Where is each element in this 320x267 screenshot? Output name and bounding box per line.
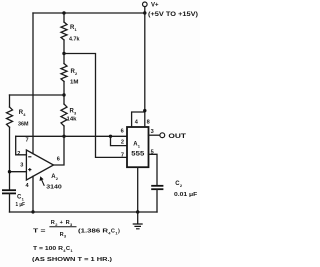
- wire 555 pins 4,8 bracket to V+: [132, 112, 150, 127]
- svg-text:C: C: [111, 229, 115, 235]
- svg-text:T =: T =: [33, 229, 46, 235]
- svg-text:7: 7: [121, 152, 124, 158]
- node pin4 on rail: [31, 210, 34, 213]
- svg-text:2: 2: [17, 151, 20, 157]
- svg-text:(AS SHOWN T = 1 HR.): (AS SHOWN T = 1 HR.): [32, 257, 112, 263]
- svg-text:3140: 3140: [46, 184, 62, 190]
- svg-text:1 μF: 1 μF: [16, 202, 26, 208]
- wire ground rail: [10, 211, 158, 213]
- resistor R2: [61, 54, 79, 96]
- wire op-amp inverting input loop: [16, 136, 27, 155]
- svg-text:(+5V TO +15V): (+5V TO +15V): [148, 12, 198, 18]
- formula line 2: [33, 246, 73, 253]
- IC A1 555 box: [127, 127, 149, 167]
- formula line 3: [32, 257, 112, 263]
- node V+ at bracket: [143, 109, 146, 112]
- formula line 1: [33, 220, 120, 239]
- capacitor C1: [2, 190, 25, 212]
- label A2 3140 with arrow: [40, 174, 62, 190]
- svg-text:V+: V+: [151, 3, 159, 9]
- label 555 pin 7: [121, 152, 124, 158]
- svg-text:): ): [118, 229, 120, 235]
- wire 555 pin 5 to C2: [149, 149, 158, 186]
- svg-text:5: 5: [151, 149, 154, 155]
- svg-text:1M: 1M: [70, 80, 79, 86]
- node R3 bottom / threshold junction: [62, 135, 65, 138]
- label 555 pin 6: [121, 129, 124, 135]
- wire threshold line to 555 pin 6: [16, 135, 127, 137]
- svg-text:14k: 14k: [67, 117, 78, 123]
- svg-text:555: 555: [131, 151, 145, 157]
- wire op-amp pin 4 to ground rail: [32, 176, 34, 212]
- node ground junction: [136, 210, 139, 213]
- op-amp plus sign: [28, 168, 31, 171]
- wire op-amp output feedback: [54, 136, 65, 165]
- svg-text:(1.386 R: (1.386 R: [78, 229, 108, 235]
- wire jog to 555 pin 2: [111, 136, 128, 145]
- wire top rail: [33, 12, 145, 14]
- wire op-amp pin 3 input: [10, 171, 27, 173]
- svg-text:6: 6: [121, 129, 124, 135]
- svg-text:6: 6: [57, 156, 60, 162]
- op-amp A2 triangle: [17, 137, 60, 189]
- svg-text:8: 8: [147, 119, 150, 125]
- OUT terminal: [160, 133, 186, 140]
- svg-text:OUT: OUT: [168, 133, 186, 140]
- wire R4 top to R2/R3 junction: [10, 94, 65, 96]
- svg-text:3: 3: [20, 163, 23, 169]
- V+ terminal: [143, 2, 199, 18]
- svg-text:4.7k: 4.7k: [69, 36, 80, 42]
- node V+ rail junction: [143, 11, 146, 14]
- wire 555 ground pin: [137, 167, 139, 212]
- svg-text:0.01 μF: 0.01 μF: [174, 192, 198, 198]
- wire R1/R2 junction to 555 pin 7 (discharge): [64, 54, 127, 158]
- wire 555 pin 3 output: [149, 129, 160, 135]
- node 555 pin2 tap: [109, 135, 112, 138]
- svg-text:2: 2: [121, 140, 124, 146]
- svg-text:3: 3: [151, 129, 154, 135]
- node top of R1: [62, 11, 65, 14]
- label 555 pin 2: [121, 140, 124, 146]
- resistor R4: [7, 95, 29, 190]
- svg-text:T = 100 R: T = 100 R: [33, 246, 64, 252]
- node R4/C1 junction: [8, 170, 11, 173]
- svg-text:7: 7: [26, 137, 29, 143]
- node R1/R2 junction: [62, 52, 65, 55]
- resistor R3: [61, 95, 77, 136]
- wire rail to op-amp pin 7: [32, 13, 34, 154]
- node R2/R3 junction: [62, 93, 65, 96]
- op-amp minus sign: [28, 156, 31, 158]
- wire V+ drop to 555 pins 4,8: [144, 13, 146, 112]
- ground symbol: [133, 212, 143, 229]
- svg-text:36M: 36M: [18, 122, 29, 128]
- capacitor C2: [151, 181, 198, 212]
- resistor R1: [61, 13, 80, 54]
